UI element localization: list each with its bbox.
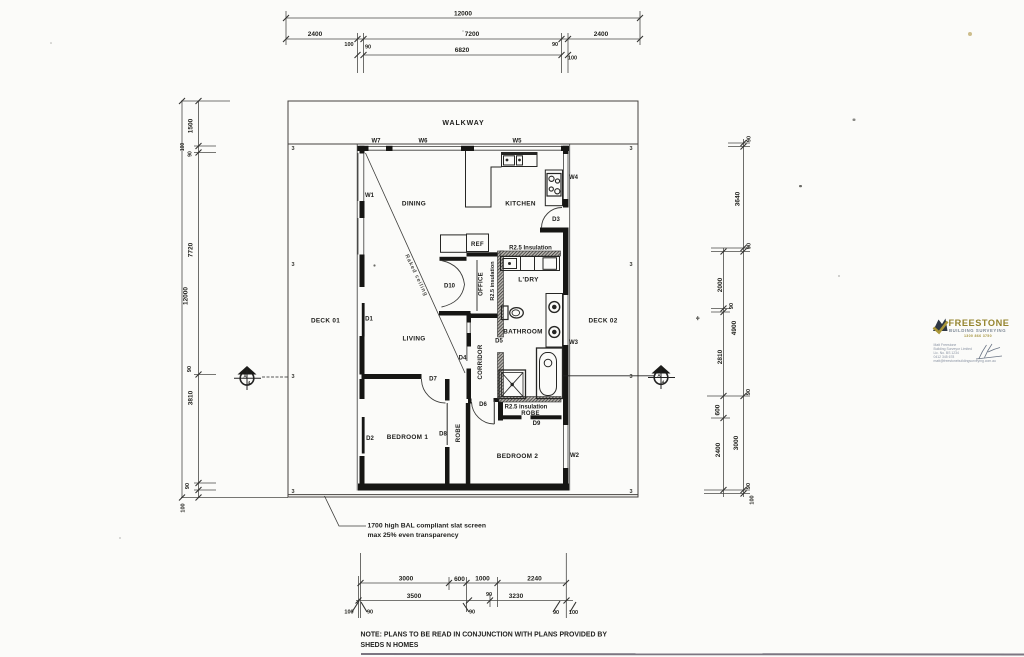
svg-text:100: 100: [569, 610, 578, 616]
svg-text:ROBE: ROBE: [521, 411, 540, 417]
svg-text:W3: W3: [569, 340, 579, 346]
svg-text:3500: 3500: [407, 593, 422, 600]
svg-text:DECK 01: DECK 01: [311, 318, 340, 325]
svg-text:1000: 1000: [475, 576, 490, 583]
svg-text:3: 3: [630, 262, 633, 268]
svg-text:D5: D5: [495, 339, 503, 345]
svg-text:90: 90: [367, 610, 373, 616]
svg-text:1300 866 3750: 1300 866 3750: [964, 334, 992, 338]
svg-text:D7: D7: [429, 377, 437, 383]
svg-text:3: 3: [292, 489, 295, 495]
svg-text:REF: REF: [471, 242, 484, 248]
svg-text:100: 100: [344, 610, 353, 616]
svg-text:3: 3: [292, 262, 295, 268]
svg-text:90: 90: [747, 136, 753, 142]
svg-text:3640: 3640: [735, 191, 742, 206]
svg-text:3: 3: [292, 374, 295, 380]
svg-text:600: 600: [715, 404, 722, 415]
svg-text:3: 3: [630, 374, 633, 380]
svg-text:90: 90: [469, 610, 475, 616]
svg-text:BATHROOM: BATHROOM: [503, 329, 543, 336]
svg-text:DECK 02: DECK 02: [588, 318, 617, 325]
svg-text:FREESTONE: FREESTONE: [949, 318, 1010, 328]
svg-text:100: 100: [180, 143, 186, 152]
svg-text:90: 90: [188, 151, 194, 157]
svg-text:KITCHEN: KITCHEN: [505, 201, 536, 208]
svg-text:2400: 2400: [594, 31, 609, 38]
svg-text:matt@freestonebuildingsurveyin: matt@freestonebuildingsurveying.com.au: [934, 359, 997, 363]
svg-text:R2.5 Insulation: R2.5 Insulation: [509, 246, 552, 252]
svg-text:Raked ceiling: Raked ceiling: [403, 254, 428, 298]
svg-text:90: 90: [185, 483, 191, 489]
svg-text:NOTE: PLANS TO BE READ IN CONJ: NOTE: PLANS TO BE READ IN CONJUNCTION WI…: [361, 632, 608, 639]
svg-text:SHEDS N HOMES: SHEDS N HOMES: [361, 642, 419, 649]
svg-text:90: 90: [729, 303, 735, 309]
svg-text:D4: D4: [459, 356, 467, 362]
svg-text:ROBE: ROBE: [456, 424, 462, 443]
svg-text:D6: D6: [479, 402, 487, 408]
svg-text:R2.5 insulation: R2.5 insulation: [490, 261, 496, 301]
svg-text:3: 3: [630, 489, 633, 495]
svg-text:1700 high BAL compliant slat s: 1700 high BAL compliant slat screen: [368, 523, 486, 530]
svg-text:W1: W1: [365, 193, 375, 199]
svg-text:DINING: DINING: [402, 201, 426, 208]
svg-text:100: 100: [181, 503, 187, 512]
svg-text:R2.5 insulation: R2.5 insulation: [505, 405, 548, 411]
svg-text:2240: 2240: [527, 576, 542, 583]
svg-text:D1: D1: [365, 317, 373, 323]
svg-text:D9: D9: [533, 421, 541, 427]
svg-text:7720: 7720: [188, 242, 195, 257]
svg-text:1500: 1500: [188, 118, 195, 133]
svg-text:3230: 3230: [509, 593, 524, 600]
svg-text:BUILDING SURVEYING: BUILDING SURVEYING: [949, 328, 1006, 333]
svg-text:90: 90: [746, 389, 752, 395]
svg-text:2400: 2400: [715, 442, 722, 457]
svg-text:90: 90: [187, 366, 193, 372]
svg-text:L'DRY: L'DRY: [518, 277, 539, 284]
svg-text:90: 90: [553, 610, 559, 616]
svg-text:D10: D10: [444, 284, 456, 290]
svg-text:LIVING: LIVING: [402, 336, 425, 343]
svg-text:OFFICE: OFFICE: [479, 272, 485, 296]
svg-text:D2: D2: [366, 436, 374, 442]
svg-text:90: 90: [552, 42, 558, 48]
svg-text:W7: W7: [372, 139, 382, 145]
svg-text:max 25% even transparency: max 25% even transparency: [368, 532, 459, 539]
svg-text:90: 90: [747, 243, 753, 249]
svg-text:12000: 12000: [454, 11, 472, 18]
svg-text:100: 100: [568, 56, 577, 62]
svg-text:90: 90: [486, 592, 492, 598]
svg-text:600: 600: [454, 576, 465, 583]
svg-text:W5: W5: [513, 139, 523, 145]
svg-text:W2: W2: [570, 453, 580, 459]
svg-text:D3: D3: [552, 217, 560, 223]
svg-text:12000: 12000: [183, 287, 190, 305]
svg-text:BEDROOM 2: BEDROOM 2: [497, 453, 539, 460]
svg-text:2400: 2400: [308, 31, 323, 38]
svg-text:2810: 2810: [717, 349, 724, 364]
svg-text:D8: D8: [439, 432, 447, 438]
svg-text:90: 90: [746, 483, 752, 489]
svg-text:6820: 6820: [455, 47, 470, 54]
svg-text:90: 90: [365, 45, 371, 51]
svg-text:3: 3: [630, 146, 633, 152]
svg-text:100: 100: [344, 42, 353, 48]
svg-text:3810: 3810: [188, 390, 195, 405]
svg-text:3000: 3000: [399, 576, 414, 583]
svg-text:2000: 2000: [717, 277, 724, 292]
svg-text:3: 3: [292, 146, 295, 152]
svg-text:WALKWAY: WALKWAY: [442, 120, 484, 127]
svg-text:3000: 3000: [733, 435, 740, 450]
svg-text:W4: W4: [569, 175, 579, 181]
svg-text:100: 100: [750, 495, 756, 504]
svg-text:W6: W6: [419, 139, 429, 145]
svg-text:4900: 4900: [731, 320, 738, 335]
svg-text:7200: 7200: [465, 31, 480, 38]
svg-text:BEDROOM 1: BEDROOM 1: [387, 434, 429, 441]
svg-text:CORRIDOR: CORRIDOR: [478, 344, 484, 379]
